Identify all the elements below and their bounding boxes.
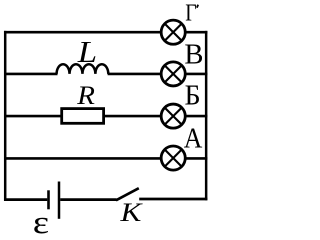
wire row G right stub xyxy=(186,31,208,34)
lamp A xyxy=(161,146,185,170)
wire row G left segment xyxy=(4,31,161,34)
lamp V xyxy=(161,62,185,86)
inductor L1 xyxy=(57,64,109,74)
wire row B left segment xyxy=(4,115,62,118)
wire bottom middle segment xyxy=(60,198,116,201)
battery short plate xyxy=(47,190,50,209)
label G prime xyxy=(197,5,198,8)
svg-text:Б: Б xyxy=(185,81,201,112)
svg-text:L: L xyxy=(77,36,97,70)
svg-text:K: K xyxy=(119,198,143,227)
wire right vertical xyxy=(205,31,208,200)
wire row V left segment xyxy=(4,73,58,76)
resistor R1 xyxy=(62,109,104,124)
wire row B middle segment xyxy=(104,115,161,118)
lamp G xyxy=(161,20,185,44)
svg-text:А: А xyxy=(184,122,203,153)
wire row V right stub xyxy=(186,73,208,76)
wire bottom left segment xyxy=(4,198,47,201)
wire bottom right segment xyxy=(139,198,207,201)
lamp B xyxy=(161,104,185,128)
battery long plate xyxy=(58,182,61,219)
svg-text:Г: Г xyxy=(185,0,196,26)
wire row V middle segment xyxy=(108,73,161,76)
wire left vertical xyxy=(4,31,7,201)
wire row A right stub xyxy=(186,157,208,160)
svg-text:R: R xyxy=(76,80,95,109)
svg-text:ε: ε xyxy=(33,204,49,237)
wire row A segment xyxy=(4,157,161,160)
wire row B right stub xyxy=(186,115,208,118)
svg-text:В: В xyxy=(184,40,203,71)
switch K blade xyxy=(116,188,139,200)
